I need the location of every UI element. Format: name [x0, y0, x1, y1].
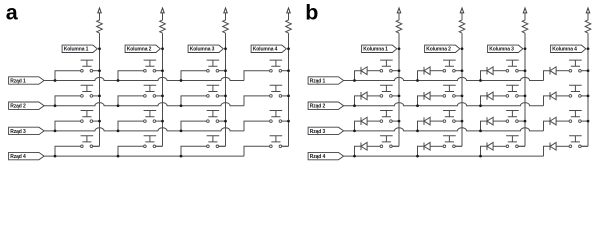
- junction: row 4 / stub column 3 (panel b): [479, 155, 482, 158]
- pushbutton switch Sa22: [144, 85, 157, 91]
- wire: column 2 end to row4 switch contact (panel b): [453, 145, 462, 147]
- net label "Kolumna 2" (panel b): [425, 45, 460, 52]
- junction: switch r1c4 to column wire (panel b): [587, 69, 590, 72]
- wire: row 4 stub up to switch branch (panel a, column 2): [118, 146, 144, 156]
- wire: diode anode to switch (panel b, r1c4): [556, 70, 569, 72]
- junction: net label Kolumna 4 to column wire (panel a): [287, 47, 290, 50]
- wire: row 2 stub up to switch branch (panel b, column 4): [544, 96, 551, 106]
- junction: switch r1c1 to column wire (panel b): [398, 69, 401, 72]
- wire: column 1 vertical (panel a): [99, 33, 101, 146]
- wire: switch to column 4 (panel b, row 2): [581, 95, 588, 97]
- svg-text:Kolumna 1: Kolumna 1: [363, 47, 388, 53]
- wire: column 3 end to row4 switch contact (panel b): [516, 145, 525, 147]
- wire: switch to column 1 (panel b, row 2): [392, 95, 399, 97]
- wire: row 2 stub up to switch branch (panel b, column 2): [418, 96, 425, 106]
- net label "Kolumna 1" (panel a): [62, 45, 97, 52]
- wire: diode anode to switch (panel b, r3c2): [430, 120, 443, 122]
- junction: switch r3c4 to column wire (panel a): [287, 120, 290, 123]
- wire: row 4 horizontal (panel a): [44, 155, 244, 157]
- wire: row 3 stub up to switch branch (panel a, column 3): [181, 121, 207, 131]
- wire: row 4 horizontal (panel b): [344, 155, 544, 157]
- pull-up resistor Rb1: [396, 13, 402, 33]
- wire: row 3 stub up to switch branch (panel b, column 1): [355, 121, 362, 131]
- wire: switch to column 1 (panel a, row 3): [93, 120, 100, 122]
- wire: column 2 end to row4 switch contact (panel a): [153, 145, 162, 147]
- svg-text:Kolumna 3: Kolumna 3: [489, 47, 514, 53]
- pushbutton switch Sb14: [569, 60, 582, 66]
- svg-text:b: b: [305, 1, 318, 25]
- pushbutton switch Sb22: [443, 85, 456, 91]
- diode Db43 (cathode to row 4): [486, 142, 488, 150]
- supply arrow (panel b, column 2): [460, 8, 464, 13]
- junction: row 2 / stub column 3 (panel a): [180, 104, 183, 107]
- wire: switch to column 3 (panel b, row 2): [518, 95, 525, 97]
- junction: row 2 / stub column 1 (panel a): [54, 104, 57, 107]
- wire: column 4 end to row4 switch contact (panel b): [579, 145, 588, 147]
- wire: row 2 stub up to switch branch (panel a, column 2): [118, 96, 144, 106]
- junction: switch r3c3 to column wire (panel b): [524, 120, 527, 123]
- junction: row 2 / stub column 2 (panel b): [416, 104, 419, 107]
- pushbutton switch Sb11: [380, 60, 393, 66]
- diode Db12 (cathode to row 1): [423, 67, 425, 75]
- junction: row 2 / stub column 3 (panel b): [479, 104, 482, 107]
- diode Db23 (cathode to row 2): [486, 92, 488, 100]
- wire: switch to column 3 (panel b, row 3): [518, 120, 525, 122]
- pushbutton switch Sa32: [144, 111, 157, 117]
- wire: row 1 stub up to switch branch (panel b, column 2): [418, 71, 425, 81]
- wire: column 2 vertical (panel a): [162, 33, 164, 146]
- net label "Rząd 2" (panel b): [308, 102, 344, 109]
- junction: net label Kolumna 4 to column wire (panel b): [587, 47, 590, 50]
- wire: switch to column 2 (panel a, row 4): [156, 145, 163, 147]
- supply arrow (panel b, column 4): [586, 8, 590, 13]
- pushbutton switch Sa33: [207, 111, 220, 117]
- pushbutton switch Sa42: [144, 136, 157, 142]
- pull-up resistor Ra3: [223, 13, 229, 33]
- wire: row 4 stub up to switch branch (panel a, column 3): [181, 146, 207, 156]
- junction: row 3 / stub column 1 (panel b): [353, 130, 356, 133]
- wire: row 2 stub up to switch branch (panel a, column 1): [55, 96, 81, 106]
- wire: row 3 horizontal (panel b): [344, 128, 544, 131]
- wire: row 1 stub up to switch branch (panel b, column 1): [355, 71, 362, 81]
- wire: row 4 stub up to switch branch (panel b, column 2): [418, 146, 425, 156]
- svg-text:Rząd 4: Rząd 4: [10, 154, 26, 160]
- junction: switch r3c4 to column wire (panel b): [587, 120, 590, 123]
- junction: net label Kolumna 3 to column wire (panel b): [524, 47, 527, 50]
- wire: row 4 stub up to switch branch (panel a, column 1): [55, 146, 81, 156]
- junction: row 1 / stub column 3 (panel b): [479, 79, 482, 82]
- pushbutton switch Sb34: [569, 111, 582, 117]
- net label "Rząd 4" (panel a): [9, 152, 45, 159]
- net label "Kolumna 3" (panel b): [488, 45, 523, 52]
- junction: switch r2c2 to column wire (panel a): [161, 95, 164, 98]
- wire: switch to column 2 (panel a, row 1): [156, 70, 163, 72]
- svg-text:Kolumna 3: Kolumna 3: [190, 47, 215, 53]
- wire: diode anode to switch (panel b, r3c3): [493, 120, 506, 122]
- wire: switch to column 4 (panel a, row 4): [282, 145, 289, 147]
- svg-text:Kolumna 2: Kolumna 2: [426, 47, 451, 53]
- wire: row 1 stub up to switch branch (panel a, column 4): [244, 71, 270, 81]
- pushbutton switch Sa24: [270, 85, 283, 91]
- wire: diode anode to switch (panel b, r4c4): [556, 145, 569, 147]
- wire: switch to column 3 (panel a, row 2): [219, 95, 226, 97]
- wire: diode anode to switch (panel b, r2c2): [430, 95, 443, 97]
- pull-up resistor Rb3: [522, 13, 528, 33]
- pushbutton switch Sb33: [506, 111, 519, 117]
- svg-text:Rząd 2: Rząd 2: [310, 104, 326, 110]
- wire: column 1 end to row4 switch contact (panel b): [390, 145, 399, 147]
- junction: net label Kolumna 1 to column wire (panel a): [98, 47, 101, 50]
- diode Db33 (cathode to row 3): [486, 117, 488, 125]
- svg-text:Kolumna 2: Kolumna 2: [127, 47, 152, 53]
- wire: switch to column 2 (panel b, row 2): [455, 95, 462, 97]
- pushbutton switch Sb42: [443, 136, 456, 142]
- wire: switch to column 2 (panel a, row 2): [156, 95, 163, 97]
- wire: switch to column 1 (panel b, row 3): [392, 120, 399, 122]
- diode Db44 (cathode to row 4): [549, 142, 551, 150]
- wire: diode anode to switch (panel b, r3c1): [367, 120, 380, 122]
- wire: diode anode to switch (panel b, r4c3): [493, 145, 506, 147]
- pushbutton switch Sa13: [207, 60, 220, 66]
- net label "Rząd 3" (panel a): [9, 127, 45, 134]
- pushbutton switch Sa14: [270, 60, 283, 66]
- wire: row 1 stub up to switch branch (panel a, column 1): [55, 71, 81, 81]
- junction: switch r3c1 to column wire (panel b): [398, 120, 401, 123]
- junction: row 1 / stub column 3 (panel a): [180, 79, 183, 82]
- wire: row 1 horizontal (panel b): [344, 77, 544, 80]
- net label "Kolumna 3" (panel a): [188, 45, 223, 52]
- wire: switch to column 3 (panel a, row 3): [219, 120, 226, 122]
- wire: switch to column 2 (panel b, row 4): [455, 145, 462, 147]
- junction: switch r1c3 to column wire (panel b): [524, 69, 527, 72]
- diode Db14 (cathode to row 1): [549, 67, 551, 75]
- wire: row 1 stub up to switch branch (panel b, column 3): [481, 71, 488, 81]
- pushbutton switch Sb12: [443, 60, 456, 66]
- pushbutton switch Sa31: [81, 111, 94, 117]
- net label "Rząd 1" (panel b): [308, 77, 344, 84]
- junction: row 4 / stub column 2 (panel b): [416, 155, 419, 158]
- net label "Rząd 1" (panel a): [9, 77, 45, 84]
- junction: row 4 / stub column 1 (panel b): [353, 155, 356, 158]
- pushbutton switch Sa41: [81, 136, 94, 142]
- diode Db11 (cathode to row 1): [360, 67, 362, 75]
- junction: row 2 / stub column 2 (panel a): [117, 104, 120, 107]
- wire: column 3 vertical (panel b): [524, 33, 526, 146]
- net label "Kolumna 1" (panel b): [362, 45, 397, 52]
- junction: net label Kolumna 1 to column wire (panel b): [398, 47, 401, 50]
- svg-text:Kolumna 4: Kolumna 4: [552, 47, 577, 53]
- supply arrow (panel b, column 1): [397, 8, 401, 13]
- wire: switch to column 1 (panel b, row 4): [392, 145, 399, 147]
- wire: row 1 stub up to switch branch (panel b, column 4): [544, 71, 551, 81]
- wire: diode anode to switch (panel b, r2c1): [367, 95, 380, 97]
- junction: switch r3c2 to column wire (panel a): [161, 120, 164, 123]
- pushbutton switch Sa21: [81, 85, 94, 91]
- svg-text:Kolumna 1: Kolumna 1: [64, 47, 89, 53]
- wire: switch to column 4 (panel a, row 3): [282, 120, 289, 122]
- junction: switch r2c3 to column wire (panel a): [224, 95, 227, 98]
- junction: row 1 / stub column 1 (panel b): [353, 79, 356, 82]
- wire: switch to column 3 (panel a, row 1): [219, 70, 226, 72]
- wire: switch to column 2 (panel b, row 3): [455, 120, 462, 122]
- wire: column 1 end to row4 switch contact (panel a): [90, 145, 99, 147]
- junction: row 3 / stub column 1 (panel a): [54, 130, 57, 133]
- diode Db41 (cathode to row 4): [360, 142, 362, 150]
- junction: switch r1c4 to column wire (panel a): [287, 69, 290, 72]
- net label "Kolumna 2" (panel a): [125, 45, 160, 52]
- junction: switch r3c2 to column wire (panel b): [461, 120, 464, 123]
- diode Db24 (cathode to row 2): [549, 92, 551, 100]
- junction: row 4 / stub column 1 (panel a): [54, 155, 57, 158]
- wire: switch to column 4 (panel a, row 2): [282, 95, 289, 97]
- wire: column 3 end to row4 switch contact (panel a): [216, 145, 225, 147]
- wire: switch to column 3 (panel b, row 4): [518, 145, 525, 147]
- wire: switch to column 4 (panel b, row 4): [581, 145, 588, 147]
- pull-up resistor Rb2: [459, 13, 465, 33]
- svg-text:Rząd 2: Rząd 2: [10, 104, 26, 110]
- wire: switch to column 1 (panel a, row 1): [93, 70, 100, 72]
- junction: switch r2c1 to column wire (panel a): [98, 95, 101, 98]
- junction: row 3 / stub column 2 (panel a): [117, 130, 120, 133]
- pushbutton switch Sa23: [207, 85, 220, 91]
- wire: switch to column 4 (panel a, row 1): [282, 70, 289, 72]
- wire: switch to column 1 (panel a, row 2): [93, 95, 100, 97]
- wire: diode anode to switch (panel b, r1c3): [493, 70, 506, 72]
- wire: row 3 stub up to switch branch (panel a, column 4): [244, 121, 270, 131]
- net label "Rząd 3" (panel b): [308, 127, 344, 134]
- net label "Rząd 4" (panel b): [308, 152, 344, 159]
- diode Db32 (cathode to row 3): [423, 117, 425, 125]
- pull-up resistor Ra2: [160, 13, 166, 33]
- diode Db42 (cathode to row 4): [423, 142, 425, 150]
- wire: row 4 stub up to switch branch (panel b, column 4): [544, 146, 551, 156]
- wire: row 2 stub up to switch branch (panel b, column 3): [481, 96, 488, 106]
- wire: row 4 stub up to switch branch (panel a, column 4): [244, 146, 270, 156]
- diode Db22 (cathode to row 2): [423, 92, 425, 100]
- wire: switch to column 1 (panel a, row 4): [93, 145, 100, 147]
- svg-text:Rząd 1: Rząd 1: [10, 78, 26, 84]
- svg-text:Kolumna 4: Kolumna 4: [253, 47, 278, 53]
- junction: switch r2c2 to column wire (panel b): [461, 95, 464, 98]
- junction: switch r2c3 to column wire (panel b): [524, 95, 527, 98]
- pull-up resistor Ra1: [97, 13, 103, 33]
- junction: row 3 / stub column 2 (panel b): [416, 130, 419, 133]
- wire: row 2 stub up to switch branch (panel a, column 3): [181, 96, 207, 106]
- wire: diode anode to switch (panel b, r3c4): [556, 120, 569, 122]
- wire: column 4 end to row4 switch contact (panel a): [279, 145, 288, 147]
- wire: diode anode to switch (panel b, r2c4): [556, 95, 569, 97]
- wire: switch to column 2 (panel b, row 1): [455, 70, 462, 72]
- junction: row 1 / stub column 2 (panel a): [117, 79, 120, 82]
- wire: diode anode to switch (panel b, r2c3): [493, 95, 506, 97]
- wire: row 3 stub up to switch branch (panel b, column 2): [418, 121, 425, 131]
- wire: diode anode to switch (panel b, r1c2): [430, 70, 443, 72]
- wire: switch to column 3 (panel a, row 4): [219, 145, 226, 147]
- pushbutton switch Sa12: [144, 60, 157, 66]
- wire: row 1 horizontal (panel a): [44, 77, 244, 80]
- wire: diode anode to switch (panel b, r4c2): [430, 145, 443, 147]
- wire: row 3 horizontal (panel a): [44, 128, 244, 131]
- junction: switch r1c3 to column wire (panel a): [224, 69, 227, 72]
- supply arrow (panel a, column 2): [161, 8, 165, 13]
- pull-up resistor Ra4: [286, 13, 292, 33]
- junction: row 4 / stub column 3 (panel a): [180, 155, 183, 158]
- pushbutton switch Sb21: [380, 85, 393, 91]
- junction: switch r1c1 to column wire (panel a): [98, 69, 101, 72]
- pushbutton switch Sa43: [207, 136, 220, 142]
- junction: row 1 / stub column 2 (panel b): [416, 79, 419, 82]
- pushbutton switch Sb24: [569, 85, 582, 91]
- wire: row 1 stub up to switch branch (panel a, column 2): [118, 71, 144, 81]
- wire: row 3 stub up to switch branch (panel b, column 4): [544, 121, 551, 131]
- diode Db21 (cathode to row 2): [360, 92, 362, 100]
- pushbutton switch Sb44: [569, 136, 582, 142]
- pushbutton switch Sa11: [81, 60, 94, 66]
- pull-up resistor Rb4: [585, 13, 591, 33]
- svg-text:Rząd 3: Rząd 3: [310, 129, 326, 135]
- pushbutton switch Sb31: [380, 111, 393, 117]
- wire: diode anode to switch (panel b, r1c1): [367, 70, 380, 72]
- wire: row 2 stub up to switch branch (panel a, column 4): [244, 96, 270, 106]
- junction: switch r3c3 to column wire (panel a): [224, 120, 227, 123]
- wire: switch to column 4 (panel b, row 3): [581, 120, 588, 122]
- diode Db31 (cathode to row 3): [360, 117, 362, 125]
- svg-text:a: a: [6, 1, 19, 25]
- wire: row 4 stub up to switch branch (panel b, column 1): [355, 146, 362, 156]
- junction: net label Kolumna 3 to column wire (panel a): [224, 47, 227, 50]
- pushbutton switch Sb32: [443, 111, 456, 117]
- junction: switch r2c1 to column wire (panel b): [398, 95, 401, 98]
- wire: row 4 stub up to switch branch (panel b, column 3): [481, 146, 488, 156]
- wire: row 3 stub up to switch branch (panel a, column 1): [55, 121, 81, 131]
- wire: row 1 stub up to switch branch (panel a, column 3): [181, 71, 207, 81]
- wire: column 4 vertical (panel b): [587, 33, 589, 146]
- junction: row 3 / stub column 3 (panel b): [479, 130, 482, 133]
- junction: switch r1c2 to column wire (panel b): [461, 69, 464, 72]
- wire: column 2 vertical (panel b): [461, 33, 463, 146]
- diode Db34 (cathode to row 3): [549, 117, 551, 125]
- junction: switch r2c4 to column wire (panel a): [287, 95, 290, 98]
- supply arrow (panel b, column 3): [523, 8, 527, 13]
- wire: row 2 stub up to switch branch (panel b, column 1): [355, 96, 362, 106]
- wire: row 3 stub up to switch branch (panel a, column 2): [118, 121, 144, 131]
- junction: row 1 / stub column 1 (panel a): [54, 79, 57, 82]
- pushbutton switch Sb43: [506, 136, 519, 142]
- wire: column 4 vertical (panel a): [288, 33, 290, 146]
- wire: switch to column 3 (panel b, row 1): [518, 70, 525, 72]
- wire: row 2 horizontal (panel a): [44, 103, 244, 106]
- wire: row 3 stub up to switch branch (panel b, column 3): [481, 121, 488, 131]
- pushbutton switch Sb23: [506, 85, 519, 91]
- wire: diode anode to switch (panel b, r4c1): [367, 145, 380, 147]
- pushbutton switch Sb41: [380, 136, 393, 142]
- junction: net label Kolumna 2 to column wire (panel b): [461, 47, 464, 50]
- pushbutton switch Sa44: [270, 136, 283, 142]
- net label "Kolumna 4" (panel b): [551, 45, 586, 52]
- net label "Kolumna 4" (panel a): [251, 45, 286, 52]
- junction: switch r1c2 to column wire (panel a): [161, 69, 164, 72]
- svg-text:Rząd 1: Rząd 1: [310, 78, 326, 84]
- supply arrow (panel a, column 1): [98, 8, 102, 13]
- wire: column 1 vertical (panel b): [398, 33, 400, 146]
- supply arrow (panel a, column 4): [287, 8, 291, 13]
- wire: switch to column 4 (panel b, row 1): [581, 70, 588, 72]
- wire: switch to column 1 (panel b, row 1): [392, 70, 399, 72]
- wire: switch to column 2 (panel a, row 3): [156, 120, 163, 122]
- pushbutton switch Sa34: [270, 111, 283, 117]
- junction: row 4 / stub column 2 (panel a): [117, 155, 120, 158]
- junction: net label Kolumna 2 to column wire (panel a): [161, 47, 164, 50]
- supply arrow (panel a, column 3): [224, 8, 228, 13]
- diode Db13 (cathode to row 1): [486, 67, 488, 75]
- junction: switch r3c1 to column wire (panel a): [98, 120, 101, 123]
- svg-text:Rząd 4: Rząd 4: [310, 154, 326, 160]
- svg-text:Rząd 3: Rząd 3: [10, 129, 26, 135]
- junction: row 2 / stub column 1 (panel b): [353, 104, 356, 107]
- net label "Rząd 2" (panel a): [9, 102, 45, 109]
- junction: row 3 / stub column 3 (panel a): [180, 130, 183, 133]
- wire: row 2 horizontal (panel b): [344, 103, 544, 106]
- pushbutton switch Sb13: [506, 60, 519, 66]
- junction: switch r2c4 to column wire (panel b): [587, 95, 590, 98]
- wire: column 3 vertical (panel a): [225, 33, 227, 146]
